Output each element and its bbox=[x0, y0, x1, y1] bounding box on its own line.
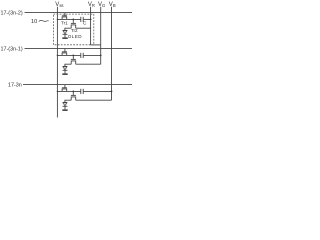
svg-text:VB: VB bbox=[109, 2, 116, 8]
svg-text:VR: VR bbox=[88, 2, 95, 8]
svg-text:17-(3n-2): 17-(3n-2) bbox=[1, 11, 23, 17]
svg-text:OLED: OLED bbox=[68, 34, 82, 39]
svg-text:17-(3n-1): 17-(3n-1) bbox=[1, 47, 23, 53]
svg-text:17-3n: 17-3n bbox=[8, 83, 22, 89]
svg-text:Tr1: Tr1 bbox=[61, 20, 68, 25]
svg-text:C: C bbox=[83, 21, 87, 27]
svg-text:Tr2: Tr2 bbox=[71, 28, 78, 33]
svg-text:10: 10 bbox=[31, 19, 37, 25]
svg-text:VG: VG bbox=[98, 2, 105, 8]
svg-text:Vss: Vss bbox=[55, 2, 63, 8]
